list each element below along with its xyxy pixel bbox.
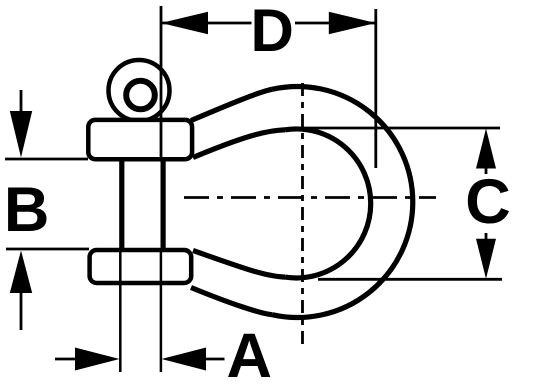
shaft hidden line right / A right extension bbox=[160, 251, 163, 372]
D left extension line bbox=[160, 6, 163, 161]
C bottom arrow stub bbox=[485, 233, 488, 239]
pin shaft right edge bbox=[161, 159, 166, 251]
C top arrow stub bbox=[485, 168, 488, 174]
svg-text:A: A bbox=[226, 321, 272, 387]
vertical centerline bbox=[301, 83, 304, 346]
pin shaft left edge bbox=[119, 159, 124, 251]
svg-text:C: C bbox=[465, 167, 511, 237]
horizontal centerline bbox=[184, 196, 436, 199]
C top extension line bbox=[300, 127, 500, 130]
bow lower arm inner edge bbox=[193, 251, 285, 278]
C bottom arrowhead bbox=[476, 239, 496, 279]
shaft hidden line left / A left extension bbox=[119, 251, 122, 372]
B bottom extension line bbox=[6, 248, 89, 251]
bow lower arm outer edge bbox=[191, 288, 272, 315]
A dimension line left tail bbox=[55, 358, 76, 361]
A left arrowhead bbox=[75, 348, 120, 371]
svg-text:B: B bbox=[4, 175, 50, 245]
D right arrowhead bbox=[329, 12, 376, 34]
bow outer arc bbox=[272, 87, 413, 318]
A right arrowhead bbox=[162, 348, 207, 371]
C bottom extension line bbox=[318, 278, 502, 281]
pin flange plate bbox=[88, 120, 192, 159]
D right extension line bbox=[374, 9, 377, 168]
shackle lower ear bbox=[90, 250, 192, 283]
D dimension line right segment bbox=[295, 22, 376, 25]
bow inner arc bbox=[285, 129, 371, 278]
B bottom arrow tail bbox=[20, 292, 23, 330]
B top arrowhead bbox=[10, 111, 32, 158]
A dimension line right tail bbox=[205, 358, 225, 361]
C top arrowhead bbox=[476, 129, 496, 169]
B top extension line bbox=[5, 158, 88, 161]
D dimension line left segment bbox=[161, 22, 252, 25]
B bottom arrowhead bbox=[10, 251, 32, 294]
bow upper arm outer edge bbox=[191, 89, 272, 120]
svg-text:D: D bbox=[251, 0, 294, 64]
pin head inner ring bbox=[126, 81, 155, 110]
bow upper arm inner edge bbox=[193, 130, 285, 158]
B top arrow tail bbox=[20, 90, 23, 112]
D left arrowhead bbox=[161, 12, 208, 34]
pin head outer circle bbox=[109, 60, 170, 121]
